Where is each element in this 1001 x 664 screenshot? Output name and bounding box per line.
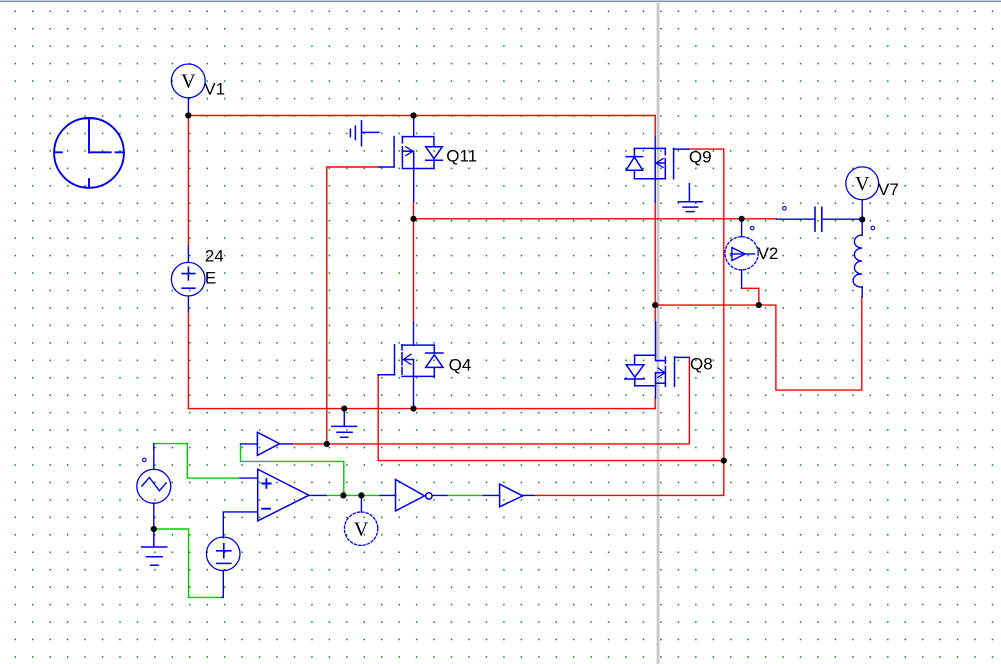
ground rotated near Q11 xyxy=(350,121,379,146)
ammeter V2 pin marker xyxy=(750,226,754,230)
wire mid rail to capacitor xyxy=(414,218,777,220)
stub buffer2 output xyxy=(523,494,535,496)
transistor Q4 xyxy=(378,345,443,377)
svg-text:Q8: Q8 xyxy=(690,355,713,374)
ground below bottom rail xyxy=(332,409,357,438)
wire green feedback to buffer1 input xyxy=(241,444,344,496)
wire green inverter to buffer2 xyxy=(447,494,483,496)
svg-text:V2: V2 xyxy=(758,244,779,263)
svg-text:V: V xyxy=(855,173,870,195)
node buffer1 output Q11 gate xyxy=(324,441,330,447)
svg-text:V: V xyxy=(181,71,196,93)
buffer2 gate xyxy=(500,484,523,507)
stub inductor bottom xyxy=(861,287,863,297)
inverter gate xyxy=(396,480,433,511)
wire V2 bottom to node 305 xyxy=(742,288,759,305)
voltmeter V1 xyxy=(171,64,205,98)
stub generator top xyxy=(153,444,155,470)
capacitor pin marker xyxy=(783,207,787,211)
stub inductor top xyxy=(861,220,863,236)
stub V7 xyxy=(861,200,863,220)
wire green opamp output xyxy=(326,494,380,496)
node bottom rail Q4 source xyxy=(410,406,416,412)
svg-text:Q11: Q11 xyxy=(446,146,477,165)
wire buffer1 output line xyxy=(292,357,689,444)
stub Q9 drain xyxy=(654,137,656,149)
stub opamp minus input from E1 xyxy=(223,512,257,538)
stub Q8 source xyxy=(655,386,657,398)
buffer1 gate xyxy=(257,432,279,455)
wire node 305 to inductor return xyxy=(655,297,862,390)
top window border xyxy=(0,0,1001,1)
stub buffer1 input xyxy=(241,443,258,445)
wire V1 node down to E top xyxy=(187,116,189,247)
ground below Q9 xyxy=(679,184,703,212)
node top rail Q11 drain xyxy=(410,112,416,118)
node opamp output a xyxy=(340,492,346,498)
stub opamp output xyxy=(309,494,326,496)
transistor Q9 xyxy=(626,148,689,178)
node Q4 Q9 gate line xyxy=(721,458,727,464)
node mid rail Q11 source xyxy=(410,216,416,222)
battery E xyxy=(171,262,205,296)
wire Q11 source to mid node xyxy=(413,202,415,323)
voltmeter V7 xyxy=(846,167,879,200)
stub E top xyxy=(187,246,189,262)
node Q8 drain line xyxy=(652,302,658,308)
wire green generator top to opamp plus xyxy=(154,444,240,479)
stub Q4 drain xyxy=(413,322,415,345)
battery E1 xyxy=(206,537,240,571)
node V2 top mid rail xyxy=(739,216,745,222)
stub generator bottom xyxy=(153,503,155,529)
svg-text:Q9: Q9 xyxy=(689,148,712,167)
opamp comparator xyxy=(258,469,309,521)
stub opamp plus input xyxy=(240,477,257,479)
stub V2 bottom xyxy=(741,270,743,288)
blue wire stubs xyxy=(154,98,862,597)
stub E1 bottom xyxy=(222,570,223,597)
inductor L1 xyxy=(853,235,862,287)
wire bottom rail xyxy=(188,398,655,409)
page divider line xyxy=(657,3,660,664)
stub buffer1 output xyxy=(280,443,293,445)
voltmeter V xyxy=(344,512,377,545)
stub V1 xyxy=(187,98,189,115)
svg-text:Q4: Q4 xyxy=(449,356,472,375)
wire top rail V1 to Q9 xyxy=(188,115,655,117)
stub inverter input xyxy=(380,494,395,496)
wire green generator bottom to E1 bottom xyxy=(154,529,222,597)
wire buffer2 output xyxy=(534,494,723,496)
node opamp output b xyxy=(358,492,364,498)
capacitor C1 xyxy=(815,207,822,231)
node generator bottom xyxy=(151,526,157,532)
node V1/top rail xyxy=(185,112,191,118)
svg-text:V1: V1 xyxy=(204,79,225,98)
wire E bottom down to bottom rail xyxy=(187,311,189,409)
wire Q9 drain to top rail xyxy=(654,116,656,137)
clock symbol xyxy=(54,118,124,188)
transistor Q11 xyxy=(379,137,442,169)
stub Q11 source xyxy=(413,169,415,202)
stub voltmeter V xyxy=(360,495,362,512)
transistor Q8 xyxy=(625,322,690,386)
node bottom rail ground xyxy=(341,406,347,412)
stub Q11 drain xyxy=(413,116,415,137)
wire Q9 gate line xyxy=(689,149,724,495)
node V7 cap inductor xyxy=(859,216,865,222)
svg-text:V: V xyxy=(354,519,369,541)
svg-text:E: E xyxy=(205,268,216,287)
inductor pin marker xyxy=(871,226,875,230)
waveform generator VG1 xyxy=(137,469,171,503)
wire Q11 gate to buffer1 output xyxy=(327,167,379,444)
svg-text:V7: V7 xyxy=(878,180,899,199)
ground below generator xyxy=(142,529,167,565)
stub Q9 source xyxy=(654,179,656,203)
node V2 bottom line xyxy=(756,302,762,308)
generator pin marker xyxy=(143,458,147,462)
wire Q4 gate line xyxy=(378,375,724,460)
stub E bottom xyxy=(187,296,189,311)
ammeter V2 xyxy=(725,237,758,270)
stub V2 top xyxy=(741,219,743,237)
stub Q4 source xyxy=(413,376,415,408)
wire Q9 source to Q8 drain xyxy=(654,202,656,322)
stub inverter output xyxy=(432,494,447,496)
stub capacitor right xyxy=(822,218,862,220)
stub buffer2 input xyxy=(483,494,499,496)
svg-text:24: 24 xyxy=(205,246,224,265)
stub capacitor left xyxy=(776,218,815,220)
